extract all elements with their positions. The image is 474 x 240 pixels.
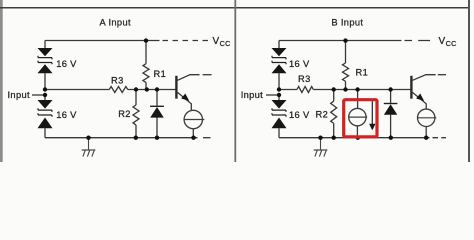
svg-text:Input: Input xyxy=(241,90,263,100)
svg-text:16 V: 16 V xyxy=(289,110,310,120)
svg-text:R3: R3 xyxy=(298,74,311,84)
svg-text:16 V: 16 V xyxy=(56,59,77,69)
svg-text:R2: R2 xyxy=(118,109,131,119)
svg-text:V: V xyxy=(439,36,446,47)
svg-text:16 V: 16 V xyxy=(289,59,310,69)
svg-text:B Input: B Input xyxy=(331,17,363,27)
svg-text:A Input: A Input xyxy=(100,17,131,27)
svg-text:R3: R3 xyxy=(111,75,124,85)
svg-text:Input: Input xyxy=(8,90,30,100)
svg-text:R1: R1 xyxy=(154,69,167,79)
svg-text:16 V: 16 V xyxy=(56,110,77,120)
svg-text:R1: R1 xyxy=(356,67,369,77)
svg-text:CC: CC xyxy=(446,39,457,48)
svg-text:R2: R2 xyxy=(316,110,329,120)
svg-text:V: V xyxy=(213,36,220,47)
svg-text:CC: CC xyxy=(220,39,231,48)
